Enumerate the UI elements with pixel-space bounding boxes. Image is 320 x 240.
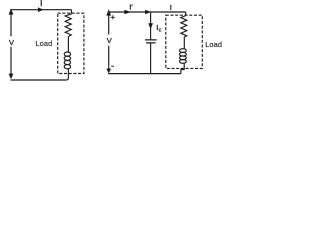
svg-text:I: I (40, 0, 42, 8)
svg-text:c: c (159, 27, 162, 33)
svg-text:V: V (9, 38, 14, 47)
svg-text:I: I (170, 3, 172, 12)
arrowhead down on capacitor branch (Ic) (148, 23, 153, 29)
arrowhead down on V branch (left circuit) (9, 74, 14, 80)
wire: resistor to inductor (right circuit) (183, 37, 185, 49)
dashed load box (left circuit) (58, 13, 84, 73)
svg-text:V: V (107, 36, 112, 45)
arrowhead down on V branch (right circuit) (106, 69, 111, 74)
arrowhead up on V branch (left circuit) (9, 8, 14, 14)
wire: left circuit, left branch vertical (V arrow shaft) (10, 10, 12, 75)
wire: right circuit, left branch vertical (V arrow shaft) (108, 13, 110, 69)
capacitor C plates (145, 40, 157, 43)
wire: resistor to inductor (left circuit) (67, 37, 69, 52)
resistor (left circuit load) (65, 14, 71, 37)
label + (right circuit source polarity) (111, 15, 115, 19)
wire: inductor to bottom conductor (left circuit) (66, 69, 68, 81)
dashed load box (right circuit) (166, 15, 203, 68)
label I (right circuit, load current) (170, 3, 172, 12)
inductor (left circuit load) (64, 52, 70, 69)
wire: left circuit top conductor (11, 10, 72, 14)
label V (right circuit) (107, 36, 112, 45)
label I (left circuit) (40, 0, 42, 8)
label minus (right circuit source polarity) (111, 65, 114, 67)
wire: left circuit bottom conductor (11, 79, 67, 81)
junction arrow into capacitor node (145, 10, 151, 15)
label Load (right circuit) (205, 40, 222, 49)
svg-text:Load: Load (205, 40, 222, 49)
wire: capacitor branch upper (right circuit) (150, 12, 152, 39)
label Ic (156, 23, 161, 33)
wire: right circuit top conductor (108, 12, 186, 16)
svg-text:Load: Load (35, 39, 52, 48)
wire: capacitor branch lower to bottom conductor (150, 43, 152, 73)
arrowhead up on V branch (right circuit) (106, 9, 111, 15)
label Load (left circuit) (35, 39, 52, 48)
svg-text:I′: I′ (129, 2, 133, 11)
current arrow I' (right circuit top) (124, 10, 130, 15)
resistor (right circuit load) (181, 16, 187, 37)
wire: inductor exit jog to bottom conductor (right circuit) (181, 63, 184, 73)
wire: right circuit bottom conductor (108, 73, 181, 75)
label I' (129, 2, 133, 11)
current arrow I (left circuit) (38, 7, 44, 12)
inductor (right circuit load) (180, 49, 187, 64)
label V (left circuit) (9, 38, 14, 47)
